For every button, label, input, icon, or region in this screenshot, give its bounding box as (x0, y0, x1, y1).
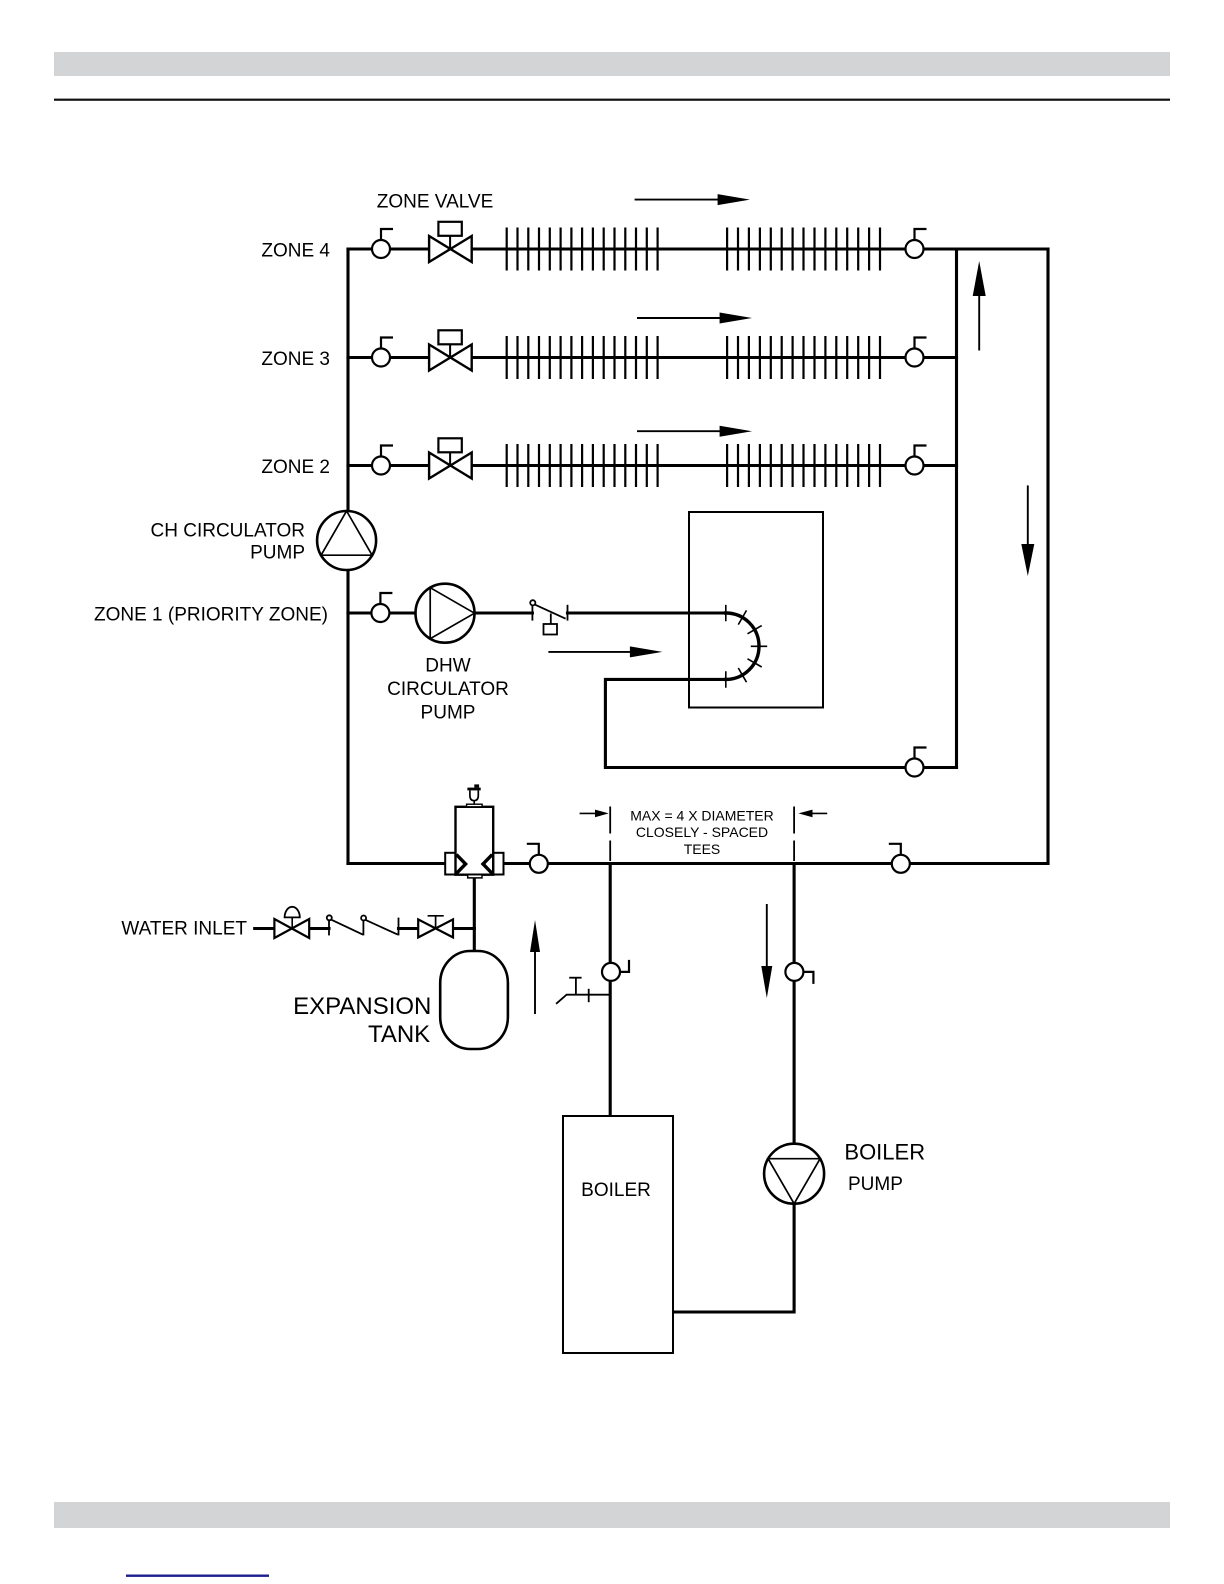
air separator body (445, 807, 503, 878)
svg-text:EXPANSION: EXPANSION (293, 993, 431, 1020)
svg-text:PUMP: PUMP (250, 543, 305, 564)
svg-text:WATER INLET: WATER INLET (121, 919, 247, 940)
expansion tank (440, 951, 508, 1049)
valve zone 3 (motorized zone valve) (429, 330, 472, 370)
valve boiler supply (ball valve) (602, 960, 629, 981)
valve boiler return (ball valve) (785, 963, 813, 984)
arrow boiler supply up-flow (530, 920, 540, 1014)
arrow boiler return down-flow (761, 904, 772, 998)
wire: boiler supply drop (609, 864, 612, 1117)
wire: inner return riser (955, 249, 958, 768)
valve zone 3 inlet (ball valve) (372, 338, 393, 367)
radiator zone 3 section 2 (finned baseboard ticks) (727, 336, 880, 379)
valve after air separator (ball valve) (527, 844, 548, 873)
valve DHW return (ball valve) (906, 748, 927, 777)
arrow zone 3 flow (637, 313, 752, 324)
arrow downcomer down-flow (1021, 485, 1034, 576)
boiler drain valve (556, 978, 610, 1004)
radiator zone 3 section 1 (finned baseboard ticks) (507, 336, 658, 379)
radiator zone 2 section 1 (finned baseboard ticks) (507, 444, 658, 487)
arrow tee right marker (799, 810, 828, 818)
radiator zone 2 section 2 (finned baseboard ticks) (727, 444, 880, 487)
arrow zone 2 flow (637, 426, 752, 437)
valve check 1 (327, 915, 363, 935)
arrow return riser up-flow (973, 261, 986, 351)
tank: indirect water heater box (689, 512, 823, 708)
wire: supply riser (346, 249, 349, 864)
arrow DHW flow (548, 646, 662, 657)
radiator zone 4 section 1 (finned baseboard ticks) (507, 228, 658, 271)
wire: boiler return drop (673, 864, 794, 1313)
valve pressure reducing (fill) (274, 907, 309, 938)
header rule (54, 99, 1170, 101)
tee spacing dashed line left (609, 807, 611, 862)
arrow tee left marker (580, 810, 609, 818)
coil: DHW heat exchanger U-bend (726, 613, 759, 679)
svg-text:CIRCULATOR: CIRCULATOR (387, 679, 509, 700)
wire: bottom main line (348, 862, 1048, 865)
arrow zone 4 flow (635, 194, 750, 205)
coil fin ticks (726, 605, 767, 688)
wire: zone 1 pipe right segment into tank (568, 611, 726, 614)
pump CH circulator (317, 511, 376, 570)
valve zone 2 outlet (ball valve) (906, 446, 927, 475)
valve check 2 (361, 916, 398, 936)
svg-text:ZONE 4: ZONE 4 (261, 240, 330, 261)
wire: expansion tank stem (473, 877, 476, 951)
wire: water inlet pipe segments (255, 927, 475, 930)
svg-text:CLOSELY - SPACED: CLOSELY - SPACED (636, 824, 768, 840)
wire: DHW coil return piping (605, 679, 956, 767)
svg-text:TEES: TEES (684, 841, 721, 857)
header gray bar (54, 52, 1170, 76)
svg-text:TANK: TANK (368, 1021, 430, 1048)
valve flow-check (zone 1) (530, 600, 567, 634)
svg-text:ZONE VALVE: ZONE VALVE (377, 191, 494, 212)
wire: zone 4 pipe / top header (348, 247, 1048, 250)
wire: zone 2 pipe (348, 464, 957, 467)
wire: outer downcomer (1046, 249, 1049, 864)
valve bottom line right (ball valve) (889, 844, 910, 873)
boiler (563, 1116, 673, 1353)
svg-text:ZONE 1 (PRIORITY ZONE): ZONE 1 (PRIORITY ZONE) (94, 605, 328, 626)
svg-text:DHW: DHW (425, 655, 470, 676)
wire: zone 3 pipe (348, 356, 957, 359)
footer link underline (126, 1575, 269, 1577)
footer gray bar (54, 1502, 1170, 1528)
valve zone 1 inlet (ball valve) (371, 593, 392, 622)
valve zone 2 (motorized zone valve) (429, 438, 472, 478)
svg-text:PUMP: PUMP (848, 1174, 903, 1195)
pump boiler (764, 1144, 824, 1204)
svg-text:ZONE 2: ZONE 2 (261, 457, 330, 478)
svg-text:PUMP: PUMP (421, 702, 476, 723)
wire: zone 1 pipe left segment (348, 611, 532, 614)
valve zone 4 inlet (ball valve) (372, 229, 393, 258)
valve gate (manual shutoff) (418, 916, 453, 938)
svg-text:ZONE 3: ZONE 3 (261, 349, 330, 370)
svg-text:MAX = 4 X DIAMETER: MAX = 4 X DIAMETER (630, 808, 774, 824)
svg-text:BOILER: BOILER (581, 1180, 651, 1201)
valve zone 4 outlet (ball valve) (906, 229, 927, 258)
valve zone 2 inlet (ball valve) (372, 446, 393, 475)
valve zone 4 (motorized zone valve) (429, 222, 472, 262)
svg-text:BOILER: BOILER (844, 1140, 925, 1165)
radiator zone 4 section 2 (finned baseboard ticks) (727, 228, 880, 271)
pump DHW circulator (416, 584, 475, 643)
svg-text:CH CIRCULATOR: CH CIRCULATOR (151, 521, 305, 542)
valve zone 3 outlet (ball valve) (906, 338, 927, 367)
air vent on separator (467, 784, 483, 806)
tee spacing dashed line right (793, 807, 795, 862)
